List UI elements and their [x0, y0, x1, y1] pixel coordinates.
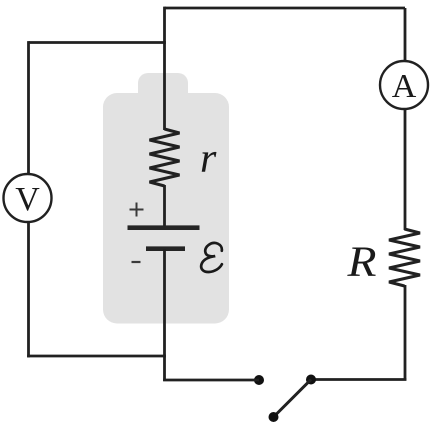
- EMF script-E label: [201, 243, 222, 272]
- voltmeter V1: [4, 174, 52, 222]
- wire: voltmeter left vertical lower: [27, 221, 30, 357]
- svg-text:A: A: [392, 68, 417, 105]
- wire: outer top (battery top node to ammeter branch): [165, 7, 406, 10]
- minus sign: [132, 261, 141, 263]
- wire: resistor R to bottom right corner: [404, 285, 407, 381]
- switch pole bottom dot: [269, 412, 279, 422]
- battery negative plate: [146, 246, 185, 251]
- wire: bottom left (switch left contact to battery bottom corner): [163, 379, 259, 382]
- svg-text:r: r: [200, 136, 217, 182]
- switch contact right dot: [306, 375, 316, 385]
- resistor R: [389, 229, 420, 286]
- wire: negative plate down to bottom corner: [163, 249, 166, 381]
- plus sign: [130, 203, 144, 217]
- switch lever: [274, 380, 312, 418]
- battery positive plate: [128, 225, 200, 230]
- wire: voltmeter left vertical upper: [27, 41, 30, 175]
- switch contact left dot: [254, 375, 264, 385]
- wire: voltmeter bottom horizontal to battery branch: [27, 355, 166, 358]
- wire: right branch upper (top wire down to ammeter): [404, 8, 407, 62]
- wire: bottom right (corner to switch right contact): [313, 378, 406, 381]
- wire: battery branch vertical (top node down into cell): [163, 7, 166, 130]
- wire: ammeter to resistor R: [404, 108, 407, 230]
- wire: voltmeter top horizontal: [29, 41, 166, 44]
- wire: resistor r to positive plate: [163, 185, 166, 227]
- svg-text:R: R: [346, 239, 376, 286]
- battery body (gray shaded cell with terminal bump): [103, 73, 229, 324]
- svg-text:V: V: [15, 181, 40, 218]
- ammeter A1: [380, 61, 428, 109]
- resistor r (internal resistance): [150, 129, 180, 186]
